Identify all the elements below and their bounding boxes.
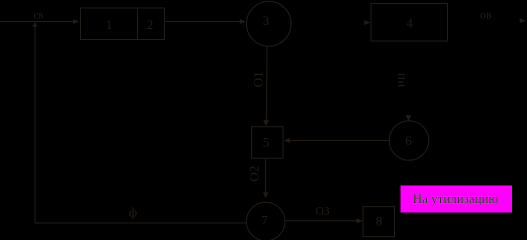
wire input св <box>0 21 74 23</box>
arrowhead into node7 top <box>263 193 269 199</box>
node 7 circle <box>246 202 285 240</box>
svg-text:ов: ов <box>480 8 492 22</box>
svg-text:8: 8 <box>376 214 383 229</box>
node 3 circle <box>246 1 291 46</box>
node 6 circle <box>389 121 429 161</box>
block 1/2 outline <box>81 8 165 40</box>
highlight box На утилизацию <box>401 186 513 213</box>
arrowhead output ов <box>520 18 526 23</box>
svg-text:О1: О1 <box>250 71 265 87</box>
wire O1 node3 down to block5 <box>266 46 269 121</box>
svg-text:4: 4 <box>406 16 413 31</box>
arrowhead into node6 top <box>406 115 412 121</box>
svg-text:О3: О3 <box>316 206 330 218</box>
svg-text:3: 3 <box>263 13 270 28</box>
svg-text:7: 7 <box>261 213 268 228</box>
arrowhead into block1 <box>73 19 79 24</box>
wire feedback vertical <box>34 26 36 223</box>
svg-text:св: св <box>34 9 44 21</box>
wire feedback bottom <box>35 222 247 224</box>
svg-text:5: 5 <box>263 134 270 149</box>
arrowhead into block5 top <box>263 120 269 126</box>
svg-text:На утилизацию: На утилизацию <box>413 191 499 206</box>
svg-text:1: 1 <box>106 17 113 32</box>
wire node6 to block5 <box>289 140 389 142</box>
block 8 outline <box>363 207 395 237</box>
arrowhead into node3 <box>240 19 246 24</box>
block 5 outline <box>252 127 284 159</box>
svg-text:О2: О2 <box>246 166 261 182</box>
block 1/2 divider <box>137 8 139 40</box>
arrowhead into block4 <box>364 20 370 25</box>
wire node7 to block8 <box>285 220 357 222</box>
arrowhead into block8 <box>357 218 363 223</box>
svg-text:6: 6 <box>405 133 412 148</box>
svg-text:2: 2 <box>147 17 154 32</box>
arrowhead feedback up into input wire <box>32 22 37 27</box>
wire block2 to node 3 <box>165 21 241 23</box>
block 4 outline <box>371 4 448 42</box>
net label ш (rotated, drawn as bars) <box>398 75 405 86</box>
wire O2 block5 down to node7 <box>265 158 267 193</box>
svg-text:ф: ф <box>129 205 137 220</box>
arrowhead into block5 right (from node6) <box>284 138 290 143</box>
